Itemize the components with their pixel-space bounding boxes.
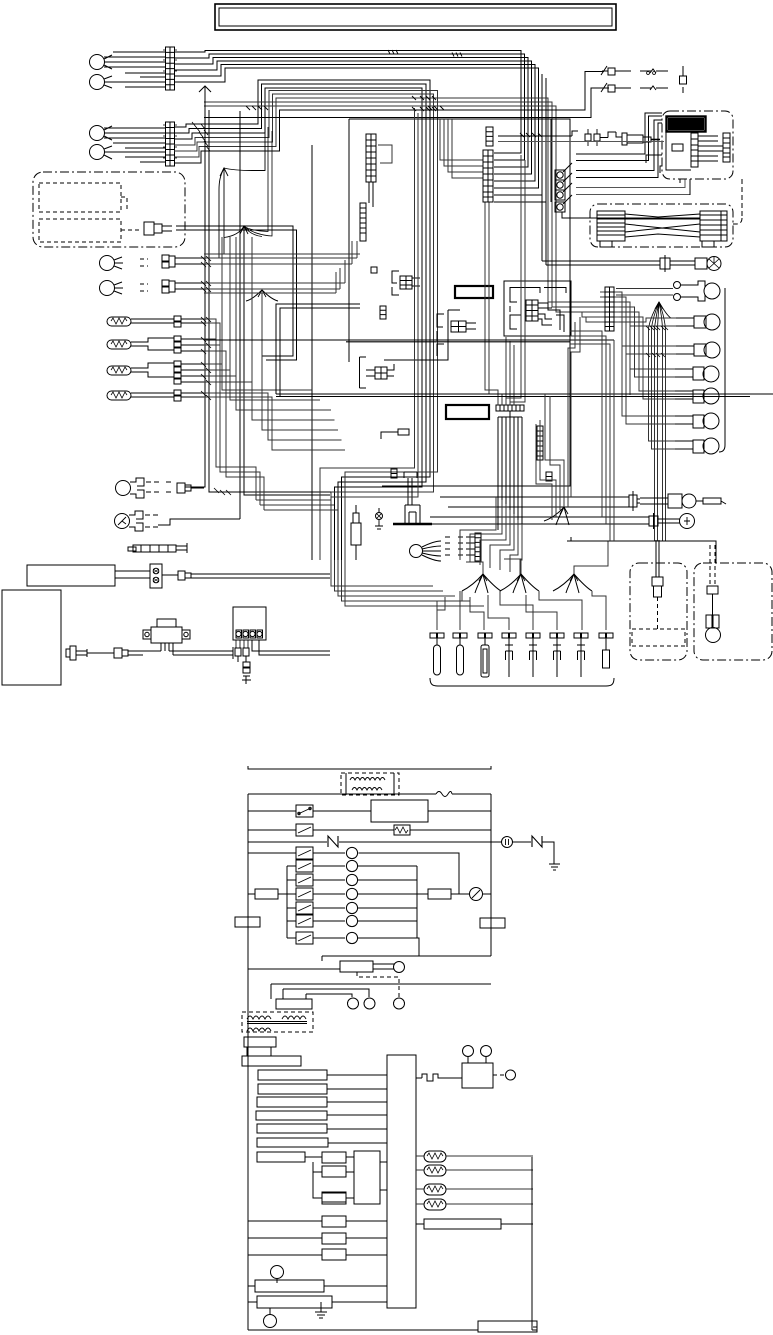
wide bar 1 — [248, 1280, 387, 1292]
heater H1 — [107, 316, 204, 327]
valve bracket line — [719, 288, 725, 452]
connector plug option — [121, 197, 297, 360]
junction arrow K1 — [199, 86, 211, 487]
junction arrow K3 — [246, 290, 278, 301]
rounded box BR1 — [630, 540, 687, 660]
relay grid RG — [360, 357, 395, 388]
valve V6 — [675, 413, 719, 429]
strip G7 right — [600, 287, 619, 331]
power plug — [66, 646, 143, 660]
bold label box LB2 — [446, 405, 489, 419]
selector row — [257, 1151, 387, 1204]
connector P1 ring terminal — [90, 55, 114, 70]
thermostat circle — [271, 1266, 284, 1284]
sensor row — [430, 513, 695, 529]
switch+lamp rows — [248, 847, 459, 956]
wide bar 2 — [248, 1296, 387, 1308]
central bundle bottom staircase — [320, 108, 484, 606]
bottom edge — [248, 1157, 537, 1332]
fuse holder F1 — [128, 543, 187, 553]
rounded box BR2 — [694, 545, 772, 660]
heater H4 — [107, 390, 204, 401]
long bus mid2 — [276, 304, 773, 397]
line row with N breaker — [248, 836, 560, 870]
grid strip G6 tall — [483, 150, 493, 202]
left capsule — [248, 889, 287, 899]
relay unit U4 — [384, 310, 476, 360]
strip G4 — [445, 533, 481, 561]
right tab — [480, 918, 505, 928]
long bar bottom — [416, 1219, 533, 1229]
fuse FS1 — [680, 66, 687, 93]
fuse row wires mesh — [437, 591, 606, 630]
switch row 1 — [296, 805, 313, 817]
terminal bus bar — [387, 1055, 416, 1308]
cam lines — [271, 984, 491, 999]
strip G2b — [380, 306, 386, 319]
inner rect rows — [287, 866, 417, 938]
strip G5 vertical 4cell — [486, 127, 493, 146]
junction arrow K2 — [224, 127, 272, 238]
junction arrow K4 valves — [649, 302, 672, 328]
vertical bus left pair — [185, 86, 331, 519]
relay box R2 — [248, 800, 491, 822]
bottom circle — [264, 1308, 277, 1328]
connector P2 ring terminal — [90, 75, 114, 90]
pin header row — [485, 155, 525, 560]
switch SW2 top right — [601, 83, 668, 92]
igniter row — [440, 491, 726, 511]
screw terminal S4 — [555, 195, 572, 212]
relay box RB — [210, 607, 330, 684]
small 2cell box b — [546, 472, 552, 481]
long bus mid1 — [204, 340, 614, 342]
fuse row bracket — [430, 678, 614, 686]
motor row — [542, 255, 721, 272]
left tab — [235, 917, 260, 927]
connector P4 ring terminal — [90, 145, 114, 160]
fuse F row: 8 fuse positions — [430, 633, 613, 677]
heater ovals bottom — [416, 1151, 533, 1210]
cam circles — [348, 998, 405, 1009]
pulse component — [416, 1046, 516, 1089]
crossing ticks row — [246, 96, 542, 137]
control unit CU — [662, 111, 733, 179]
junction arrow K8 — [553, 574, 592, 593]
wire bundle A top bus — [174, 51, 546, 266]
twisted pair harness box — [590, 204, 733, 247]
wire group P1-CN1 — [104, 52, 165, 87]
grid strip G1 — [366, 134, 392, 182]
glow plug — [616, 132, 660, 145]
feed line to BR boxes — [567, 537, 716, 563]
wire group P3-CN2 — [104, 128, 165, 162]
right capsule — [417, 889, 469, 899]
junction arrow K5 — [544, 507, 569, 525]
screw terminal S1 — [555, 163, 572, 180]
board slats — [256, 1070, 387, 1147]
G6 left feeders — [440, 119, 483, 178]
connector pair P5 — [100, 255, 205, 271]
ground bottom — [315, 1302, 327, 1318]
top bracket — [248, 766, 491, 769]
junction dot rows — [646, 326, 668, 357]
central vertical bundle — [311, 145, 313, 560]
transformer T3 — [242, 1012, 313, 1032]
meter M — [470, 888, 492, 901]
timer box — [276, 999, 312, 1009]
switch SW1 top right — [601, 66, 668, 75]
connector P3 ring terminal — [90, 126, 114, 141]
valve V2 — [676, 314, 720, 330]
control unit feed lines — [646, 155, 700, 218]
relay unit U3 — [504, 281, 571, 336]
switch row 2 + resistor — [248, 824, 491, 836]
valve V7 — [675, 438, 719, 454]
valve V5 — [675, 388, 719, 404]
long wires right of screws — [562, 113, 700, 218]
junction arrow K1b — [219, 133, 265, 258]
valve feed wires — [616, 289, 676, 425]
left mesh wires — [204, 237, 360, 510]
lamp L1 — [116, 478, 205, 498]
small square node — [371, 267, 377, 273]
main outline box — [248, 792, 491, 1331]
motor M2 row — [248, 956, 491, 998]
dashed rect option board 2 — [39, 219, 121, 242]
dashed drop from control unit — [733, 179, 742, 224]
tiny box component — [381, 429, 409, 439]
multi plug fan — [410, 541, 442, 561]
gas igniter — [351, 505, 361, 560]
right side drops — [536, 312, 614, 541]
small box column bottom — [248, 1192, 387, 1260]
terminal strip CN1 — [163, 47, 177, 90]
small circle node a — [674, 282, 681, 289]
big blank box — [2, 590, 61, 685]
fan K4 bundle down — [649, 328, 676, 541]
wire drop bundle to fuse row — [460, 497, 522, 575]
heater H2 — [107, 336, 204, 353]
junction arrow K7 — [500, 574, 539, 593]
strip G3 — [537, 426, 543, 460]
valve V1 — [680, 281, 720, 301]
power cord block — [27, 564, 330, 588]
screw terminal S2 — [555, 173, 572, 190]
terminal strip CN2 — [163, 122, 177, 166]
spark gap — [375, 508, 383, 529]
screw terminal S3 — [555, 183, 572, 200]
buzzer BZ — [115, 511, 241, 531]
bold label box LB1 — [455, 286, 493, 298]
inline fuse pair — [498, 129, 664, 146]
junction ticks bundleA — [388, 50, 462, 57]
junction arrow K6 — [462, 541, 608, 593]
solenoid SV — [393, 472, 432, 524]
transformer T2 dashed — [341, 773, 399, 795]
valve V3 — [676, 342, 720, 358]
connector pair P6 — [100, 280, 205, 296]
title box — [215, 4, 616, 30]
dash-dot box optional unit — [33, 172, 185, 247]
crossing ticks left rows — [192, 122, 231, 495]
valve V4 — [675, 366, 719, 382]
transformer T1 — [128, 619, 210, 655]
rectifier stack — [242, 1037, 301, 1066]
small 2cell box — [391, 469, 397, 478]
central big box — [349, 119, 570, 486]
heater H3 — [107, 361, 204, 384]
bracket unit U2 — [392, 271, 420, 295]
dashed rect option board 1 — [39, 183, 121, 212]
strip G2 — [360, 182, 373, 241]
wire bundle B second bus — [174, 72, 609, 561]
small circle node b — [674, 294, 681, 301]
